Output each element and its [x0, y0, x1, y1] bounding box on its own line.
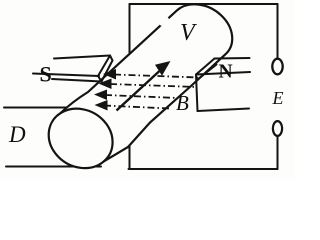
- drum near face inner arc (bottom-left ellipse, upper-right half): [61, 109, 113, 162]
- scan gap in drum upper edge: [162, 19, 168, 24]
- magnet S bar front-right short edge: [98, 76, 102, 82]
- wire: circuit left edge: [129, 4, 131, 169]
- svg-text:B: B: [176, 91, 189, 115]
- magnet N bar bottom edge: [198, 109, 250, 112]
- wire: circuit right edge lower segment: [277, 136, 279, 169]
- magnet S bar back-top edge: [54, 56, 110, 59]
- wire: circuit right edge upper segment: [277, 4, 279, 59]
- terminal circle upper: [272, 59, 282, 75]
- magnet S bar end face right diagonal: [102, 61, 113, 82]
- wire: circuit bottom edge: [129, 168, 278, 170]
- magnet S bar back-right short edge: [110, 56, 113, 61]
- velocity arrow V: [117, 61, 171, 111]
- wire: left field line mid (into S region): [4, 107, 80, 109]
- svg-text:D: D: [8, 122, 26, 147]
- magnet N bar front-top edge through N: [196, 72, 250, 75]
- svg-text:S: S: [40, 62, 52, 87]
- field dash-dot line 1: [103, 69, 199, 80]
- svg-text:N: N: [219, 62, 233, 83]
- magnet N bar front-left edge: [196, 75, 198, 112]
- magnet N bar end face bottom diagonal: [198, 65, 217, 80]
- magnet S bar front-bottom edge: [52, 79, 102, 82]
- magnet S bar end face left diagonal: [98, 56, 110, 77]
- field dash-dot line 4: [95, 100, 171, 111]
- svg-text:E: E: [272, 88, 284, 108]
- magnet N bar end face top diagonal: [196, 59, 215, 75]
- cylinder drum body (white silhouette): [49, 4, 233, 168]
- field dash-dot line 2: [99, 79, 197, 90]
- wire: left lower base line: [6, 166, 101, 168]
- magnet S bar front-top edge through S: [33, 74, 99, 77]
- field dash-dot line 3: [94, 90, 178, 101]
- wire: circuit top edge (redrawn over drum): [130, 3, 278, 5]
- magnet N bar back-top edge: [215, 57, 250, 60]
- svg-text:V: V: [180, 20, 197, 46]
- terminal circle lower: [273, 121, 282, 136]
